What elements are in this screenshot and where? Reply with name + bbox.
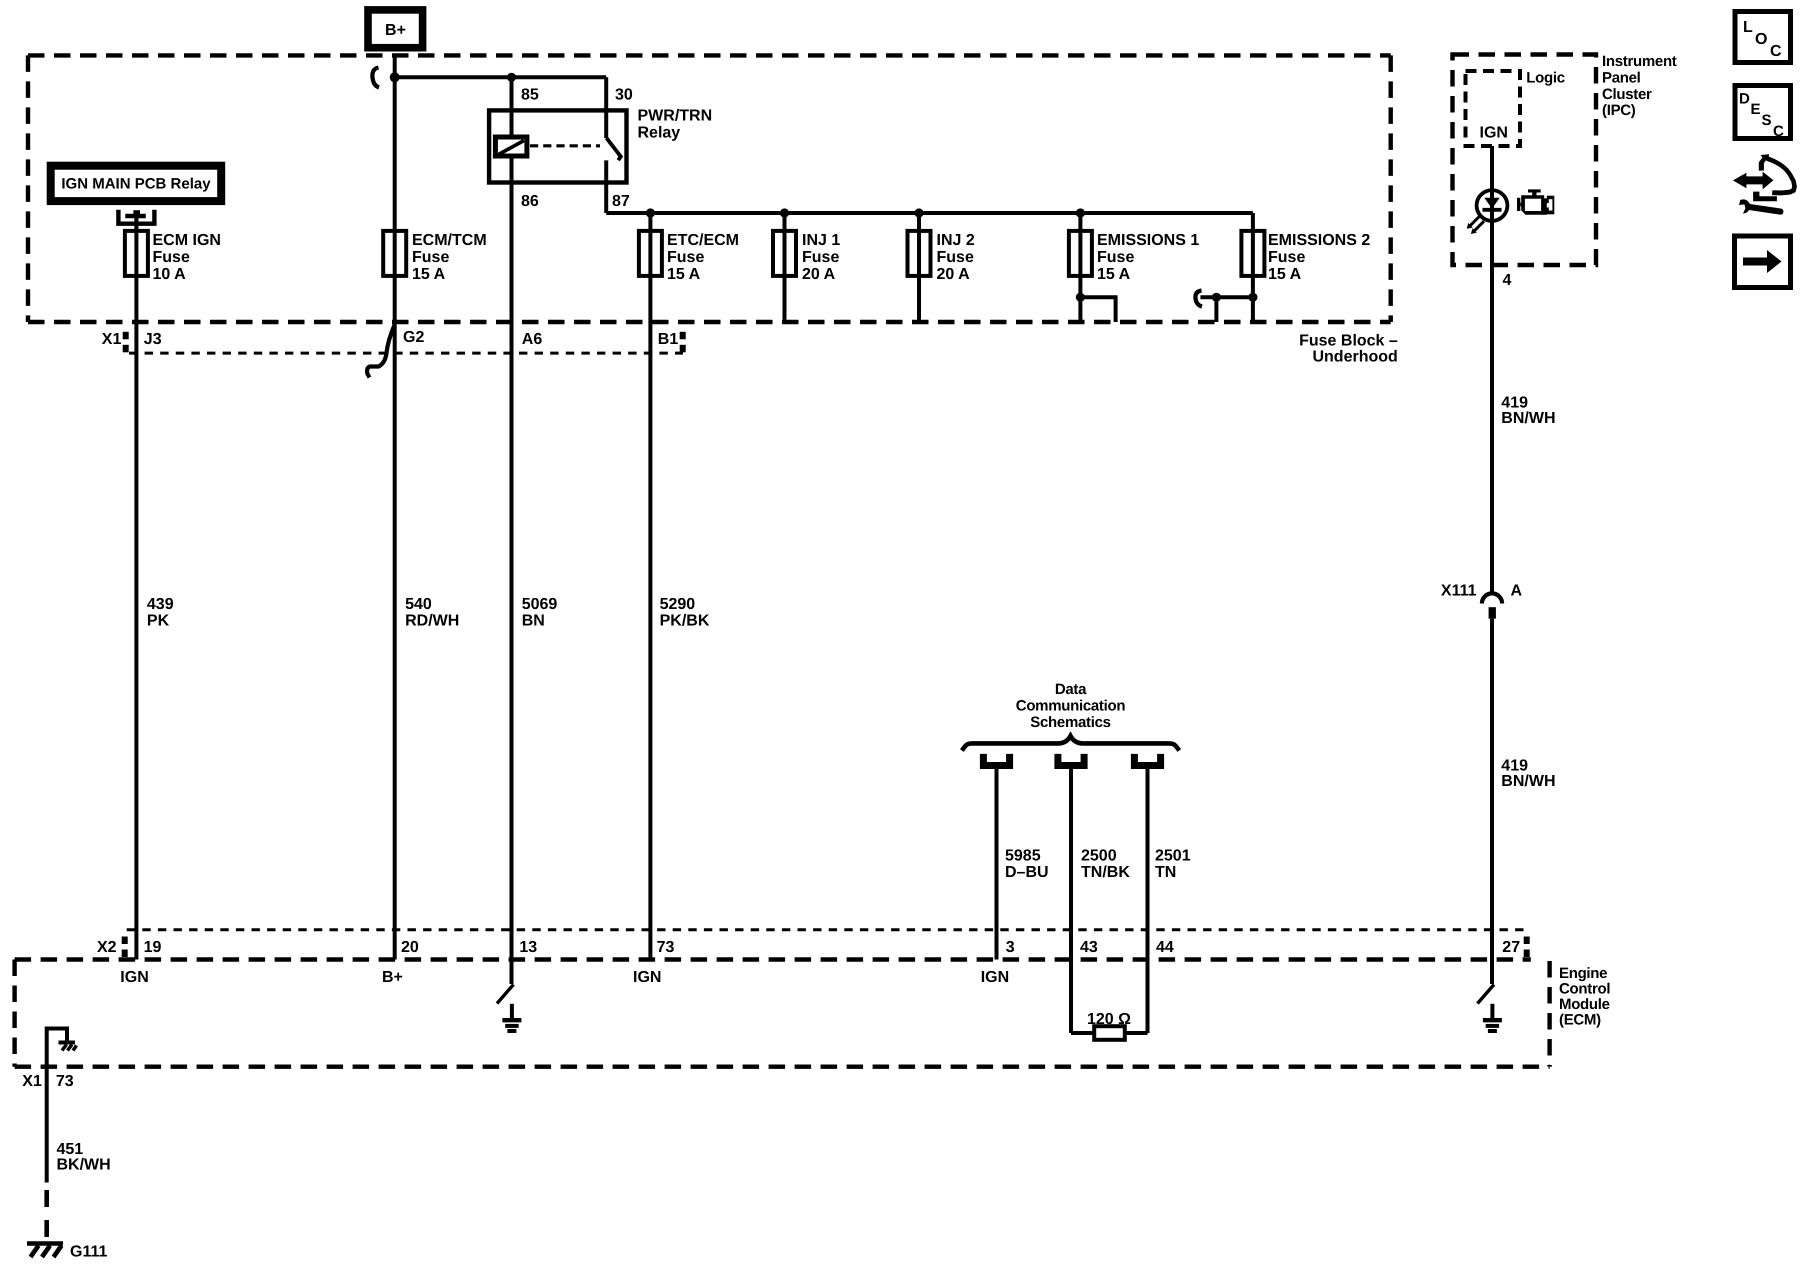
svg-text:IGN: IGN [120,969,148,986]
svg-text:BN: BN [522,613,545,630]
svg-text:Control: Control [1559,980,1610,997]
svg-text:BN/WH: BN/WH [1501,773,1555,790]
ECM dashed box [15,960,1550,1067]
terminal U symbol pin 43 wire [1058,754,1084,766]
wire EMISSIONS 1 branch jog [1080,297,1115,322]
data communication schematics callout [1016,681,1126,731]
svg-text:Logic: Logic [1526,70,1565,87]
svg-text:20 A: 20 A [802,266,836,283]
connector clip hook at B+ wire [372,68,379,88]
svg-text:S: S [1762,112,1772,129]
fuse ECM/TCM 15A [383,231,406,276]
wire EMISSIONS 1 fuse drop [1078,213,1082,322]
svg-text:PK/BK: PK/BK [660,613,710,630]
IGN MAIN PCB Relay label box [51,166,222,201]
svg-text:EMISSIONS 2: EMISSIONS 2 [1268,232,1370,249]
svg-text:Fuse Block –: Fuse Block – [1299,332,1398,349]
svg-text:Engine: Engine [1559,965,1607,982]
svg-text:ECM IGN: ECM IGN [153,232,221,249]
wire circuit 5985 [995,769,999,960]
svg-text:419: 419 [1501,395,1528,412]
svg-text:5290: 5290 [660,596,696,613]
wire ECM IGN fuse drop (circuit 439) [134,218,138,960]
wire pin 27 internal to ground [1478,985,1495,1004]
svg-text:X1: X1 [22,1073,42,1090]
svg-text:Module: Module [1559,996,1610,1013]
wire fuse feed bus from pin 87 [606,211,1253,215]
ground symbol pin 13 [502,1004,521,1031]
fuse EMISSIONS 2 15A [1241,231,1264,276]
svg-text:TN: TN [1155,864,1176,881]
wire INJ 2 fuse drop [917,213,921,322]
svg-text:J3: J3 [144,331,162,348]
svg-text:BK/WH: BK/WH [57,1157,111,1174]
svg-text:85: 85 [521,86,539,103]
relay coil [495,137,527,156]
svg-text:5985: 5985 [1005,847,1041,864]
svg-text:20 A: 20 A [937,266,971,283]
junction node EMISSIONS 1 branch [1076,293,1085,302]
IPC labels [1480,53,1677,142]
svg-text:(IPC): (IPC) [1602,102,1636,119]
svg-text:2500: 2500 [1081,847,1117,864]
IPC logic dashed box [1466,71,1521,146]
check engine MIL icon [1517,189,1554,214]
svg-text:86: 86 [521,193,539,210]
svg-text:43: 43 [1080,939,1098,956]
icon forward arrow box [1735,236,1791,288]
svg-text:87: 87 [612,193,630,210]
ECM name label [1559,965,1610,1029]
svg-text:15 A: 15 A [1097,266,1131,283]
wire 419 lower segment [1490,619,1494,984]
brace over data wires [962,736,1180,751]
junction node INJ 1 tee [780,208,789,217]
svg-text:C: C [1770,43,1782,60]
terminal U symbol pin 3 wire [983,754,1009,766]
ground symbol pin 27 [1483,1004,1502,1031]
svg-text:Underhood: Underhood [1312,349,1397,366]
svg-text:73: 73 [657,939,675,956]
svg-text:IGN MAIN PCB Relay: IGN MAIN PCB Relay [61,175,211,192]
svg-text:X2: X2 [97,939,117,956]
svg-text:ETC/ECM: ETC/ECM [667,232,739,249]
svg-text:73: 73 [56,1073,74,1090]
icon LOC box [1735,12,1791,63]
junction node at 85 tee [507,73,516,82]
svg-text:451: 451 [57,1141,84,1158]
colon dots B1 [680,332,686,353]
svg-text:INJ 1: INJ 1 [802,232,840,249]
junction node EMISSIONS 2 stub [1212,293,1221,302]
IGN MAIN PCB relay contact symbol [118,210,154,231]
svg-text:E: E [1751,101,1761,118]
icon harness routing arrows and wrench [1733,154,1797,214]
connector clip S-curve at G2 [367,325,394,378]
wire 451 dashed continuation [44,1190,49,1238]
svg-text:20: 20 [401,939,419,956]
wire relay pin 87 down to bus [604,160,608,213]
svg-text:419: 419 [1501,757,1528,774]
ECM internal ground pigtail X1-73 [47,1029,67,1183]
svg-text:INJ 2: INJ 2 [937,232,975,249]
wire circuit 2500 [1069,769,1073,1033]
svg-text:A: A [1511,582,1523,599]
svg-text:B+: B+ [385,22,406,39]
junction node EMISSIONS 2 branch [1248,293,1257,302]
instrument panel cluster IPC dashed box [1453,55,1597,266]
terminal U symbol pin 44 wire [1134,754,1160,766]
connector X111 symbol [1482,593,1502,618]
svg-text:27: 27 [1502,939,1520,956]
wire relay coil to pin 86 and down to ECM (circuit 5069) [510,156,514,959]
junction node ETC/ECM tee [646,208,655,217]
wire pin 13 internal to ground [497,960,514,1004]
wire EMISSIONS 2 fuse drop [1251,213,1255,322]
ECM pin function labels [120,969,1009,986]
svg-text:439: 439 [147,596,174,613]
fuse block underhood dashed box [28,55,1391,322]
svg-text:30: 30 [615,86,633,103]
junction node EMISSIONS 1 tee [1076,208,1085,217]
svg-text:IGN: IGN [633,969,661,986]
svg-text:Fuse: Fuse [1097,249,1134,266]
svg-text:PWR/TRN: PWR/TRN [638,107,713,124]
colon dots X1 [123,332,129,353]
fuse EMISSIONS 1 15A [1069,231,1092,276]
svg-text:Panel: Panel [1602,69,1641,86]
svg-text:Fuse: Fuse [153,249,190,266]
svg-text:X111: X111 [1441,582,1477,599]
connector X2 ECM dashed row [127,928,1526,931]
chassis ground symbol internal [59,1043,77,1051]
wire IPC IGN to pin 4 (circuit 419) [1490,146,1494,594]
svg-text:Instrument: Instrument [1602,53,1677,70]
svg-text:4: 4 [1503,272,1512,289]
wire ETC/ECM fuse drop (circuit 5290) [648,213,652,960]
svg-text:TN/BK: TN/BK [1081,864,1130,881]
svg-text:Fuse: Fuse [937,249,974,266]
colon dots pin 27 [1524,937,1530,958]
svg-text:D: D [1739,91,1750,108]
colon dots X2 [122,937,128,958]
wire relay pin 30 drop [604,77,608,138]
svg-text:EMISSIONS 1: EMISSIONS 1 [1097,232,1199,249]
svg-text:X1: X1 [102,331,122,348]
svg-text:Schematics: Schematics [1030,714,1110,731]
svg-text:Communication: Communication [1016,698,1126,715]
wire B+ vertical (circuit 540) [393,55,397,959]
connector clip hook at EMISSIONS 2 branch [1195,291,1202,307]
ground G111 chassis symbol [27,1244,63,1258]
ECM pin number labels [97,939,1520,956]
svg-text:3: 3 [1006,939,1015,956]
svg-text:15 A: 15 A [667,266,701,283]
wire relay pin 85 drop [510,77,514,136]
svg-text:RD/WH: RD/WH [405,613,459,630]
svg-text:IGN: IGN [1480,125,1508,142]
svg-text:Relay: Relay [638,124,681,141]
svg-text:IGN: IGN [981,969,1009,986]
svg-text:Fuse: Fuse [412,249,449,266]
svg-text:540: 540 [405,596,432,613]
svg-text:5069: 5069 [522,596,558,613]
indicator LED lamp [1467,190,1508,234]
svg-text:13: 13 [519,939,537,956]
svg-text:BN/WH: BN/WH [1501,410,1555,427]
wire INJ 1 fuse drop [783,213,787,322]
svg-text:Fuse: Fuse [802,249,839,266]
junction node INJ 2 tee [914,208,923,217]
svg-text:D–BU: D–BU [1005,864,1049,881]
svg-text:120 Ω: 120 Ω [1087,1011,1131,1028]
svg-text:Fuse: Fuse [1268,249,1305,266]
svg-text:(ECM): (ECM) [1559,1012,1601,1029]
svg-text:G2: G2 [403,329,424,346]
power terminal B+ box [368,10,423,48]
wire branch to relay [395,75,607,79]
fuse INJ 1 20A [773,231,796,276]
svg-text:19: 19 [144,939,162,956]
svg-text:B+: B+ [382,969,403,986]
svg-text:PK: PK [147,613,170,630]
svg-text:15 A: 15 A [412,266,446,283]
relay PWR/TRN outline [489,110,626,182]
svg-text:A6: A6 [522,331,543,348]
svg-text:10 A: 10 A [153,266,187,283]
svg-text:Cluster: Cluster [1602,86,1652,103]
fuse INJ 2 20A [908,231,931,276]
wire circuit 2501 [1146,769,1150,1033]
svg-text:Fuse: Fuse [667,249,704,266]
svg-text:O: O [1755,31,1767,48]
connector X1 fuse block dashed row [129,352,683,355]
svg-text:ECM/TCM: ECM/TCM [412,232,487,249]
junction node at B+ branch [390,72,400,82]
terminating resistor 120 ohm [1071,1026,1148,1040]
relay coil-contact dashed link [530,144,600,147]
wire EMISSIONS 2 branch left [1200,297,1253,322]
svg-text:G111: G111 [70,1243,107,1260]
svg-text:C: C [1773,123,1784,140]
svg-text:L: L [1743,19,1753,36]
relay switch blade [607,138,621,160]
svg-text:15 A: 15 A [1268,266,1302,283]
icon DESC box [1735,86,1791,141]
svg-text:Data: Data [1055,681,1087,698]
svg-text:44: 44 [1156,939,1174,956]
svg-text:B1: B1 [658,331,679,348]
fuse ECM IGN 10A [125,231,148,276]
svg-text:2501: 2501 [1155,847,1191,864]
fuse ETC/ECM 15A [639,231,662,276]
